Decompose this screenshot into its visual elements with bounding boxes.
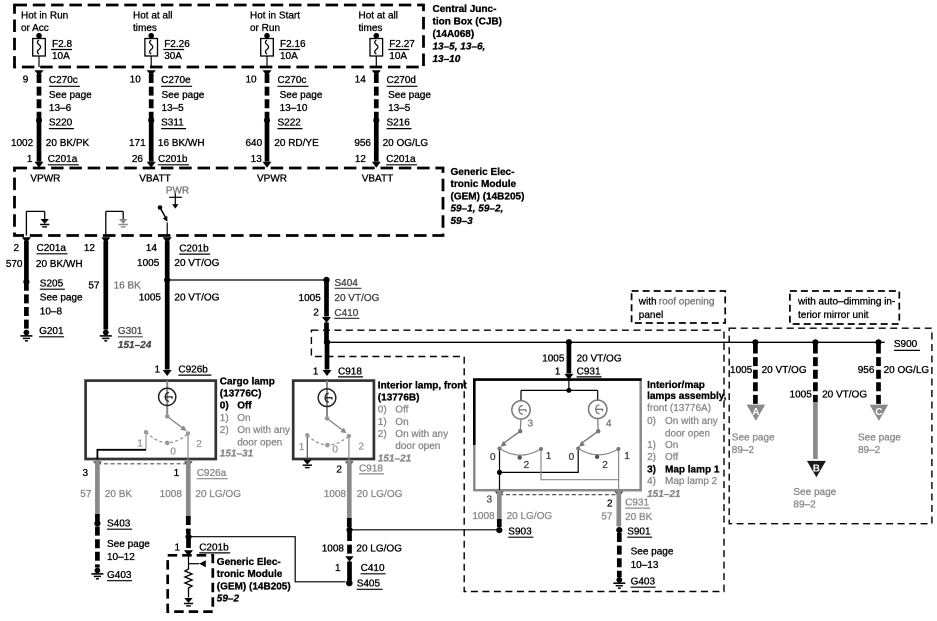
wire 57 16 BK bbox=[103, 241, 108, 330]
cargo pin 1 exit arrow bbox=[184, 461, 193, 467]
svg-text:S405: S405 bbox=[357, 579, 381, 590]
wire col2 CJB to GEM bbox=[149, 74, 154, 120]
GEM2 internal ground bbox=[184, 599, 193, 606]
Central Junction Box (CJB) dashed enclosure bbox=[15, 5, 424, 67]
svg-text:1005: 1005 bbox=[730, 365, 753, 376]
hot feed label col2 bbox=[133, 11, 172, 34]
svg-text:On: On bbox=[237, 413, 250, 424]
with roof opening panel region dashed outline bbox=[311, 330, 724, 591]
wire fuse4 to connector bbox=[375, 56, 377, 67]
svg-text:10A: 10A bbox=[389, 51, 407, 62]
svg-text:S216: S216 bbox=[387, 118, 411, 129]
ground G301 bbox=[100, 326, 152, 351]
svg-text:times: times bbox=[133, 23, 157, 34]
svg-text:640: 640 bbox=[246, 138, 263, 149]
map switch 2 blade bbox=[579, 431, 598, 447]
svg-text:PWR: PWR bbox=[166, 185, 189, 196]
svg-text:(14A068): (14A068) bbox=[433, 29, 475, 40]
svg-text:G201: G201 bbox=[39, 326, 64, 337]
svg-text:2): 2) bbox=[220, 425, 229, 436]
svg-text:16 BK: 16 BK bbox=[114, 281, 142, 292]
svg-text:20 BK: 20 BK bbox=[625, 512, 653, 523]
svg-text:Interior lamp, front: Interior lamp, front bbox=[378, 380, 468, 391]
svg-text:Hot at all: Hot at all bbox=[133, 11, 172, 22]
svg-text:14: 14 bbox=[355, 75, 367, 86]
wire col1 CJB to GEM bbox=[37, 74, 42, 120]
wire fuse2 to connector bbox=[150, 56, 152, 67]
map pin 2 internal wire bbox=[618, 480, 620, 490]
svg-text:13–6: 13–6 bbox=[49, 103, 72, 114]
labels 1005 20 VT/OG A bbox=[730, 365, 807, 376]
svg-text:0: 0 bbox=[332, 444, 338, 455]
wire fuse3 to connector bbox=[266, 56, 268, 67]
svg-text:or Acc: or Acc bbox=[21, 23, 49, 34]
svg-text:G301: G301 bbox=[118, 326, 143, 337]
svg-text:S900: S900 bbox=[894, 339, 918, 350]
svg-text:Map lamp 2: Map lamp 2 bbox=[665, 476, 718, 487]
with auto-dimming label box bbox=[790, 291, 899, 324]
svg-text:VBATT: VBATT bbox=[362, 173, 393, 184]
cargo switch arc bbox=[146, 432, 188, 442]
svg-text:S311: S311 bbox=[161, 118, 184, 129]
GEM output arrow pin 14 bbox=[163, 237, 172, 243]
map pin 3 internal wire bbox=[499, 472, 501, 490]
splice S900 label bbox=[894, 339, 920, 351]
wire to C201b junction black bbox=[186, 516, 191, 534]
labels 1008 20 LG/OG gray interior bbox=[324, 489, 403, 500]
GEM entry arrow col3 bbox=[263, 162, 272, 168]
off-page arrow B bbox=[807, 461, 826, 477]
svg-text:14: 14 bbox=[146, 243, 158, 254]
svg-text:26: 26 bbox=[132, 154, 144, 165]
svg-text:2: 2 bbox=[336, 464, 342, 475]
C see page labels bbox=[858, 432, 901, 456]
svg-text:3: 3 bbox=[528, 419, 534, 430]
labels 1008 20 LG/OG gray map bbox=[472, 511, 552, 522]
svg-text:59–3: 59–3 bbox=[451, 216, 474, 227]
svg-text:(GEM) (14B205): (GEM) (14B205) bbox=[217, 581, 291, 592]
svg-text:0): 0) bbox=[220, 401, 229, 412]
svg-text:1: 1 bbox=[174, 542, 180, 553]
pin 13 labels col3 bbox=[251, 154, 263, 165]
svg-text:1: 1 bbox=[546, 451, 552, 462]
svg-text:C931: C931 bbox=[625, 498, 649, 509]
svg-text:20 OG/LG: 20 OG/LG bbox=[383, 138, 429, 149]
svg-text:On with any: On with any bbox=[395, 429, 448, 440]
svg-text:1: 1 bbox=[555, 366, 561, 377]
map lamps entry wiring bbox=[521, 380, 598, 401]
pin 1 / C918 labels bbox=[313, 366, 363, 377]
with auto-dimming region dashed outline bbox=[729, 328, 932, 524]
svg-text:door open: door open bbox=[237, 437, 282, 448]
junction node C201b lower bbox=[185, 534, 191, 540]
wire 1008 to C410 bbox=[347, 532, 352, 555]
svg-text:4: 4 bbox=[606, 419, 612, 430]
svg-text:F2.8: F2.8 bbox=[52, 39, 72, 50]
connector C926a dashed link line bbox=[97, 463, 188, 465]
labels 57 20 BK bbox=[80, 489, 132, 500]
map switch 1 contacts bbox=[498, 447, 544, 460]
svg-text:1: 1 bbox=[313, 366, 319, 377]
svg-text:Off: Off bbox=[237, 401, 252, 412]
interior switch position labels bbox=[299, 441, 365, 455]
svg-text:See page: See page bbox=[49, 90, 92, 101]
wire S901 to G403 bbox=[617, 533, 622, 577]
wire C410 to junction bbox=[324, 323, 329, 343]
fuse F3 (F2.16 10A) bbox=[261, 33, 306, 62]
svg-text:1: 1 bbox=[624, 451, 630, 462]
splice S901 bbox=[616, 527, 652, 538]
wire to B gray lower bbox=[813, 402, 818, 459]
pin 2 / C201a labels bbox=[6, 243, 83, 270]
svg-text:C201b: C201b bbox=[199, 542, 229, 553]
wire 1005 20 VT/OG to cargo lamp bbox=[165, 282, 170, 370]
pin 1 / C201b labels lower bbox=[174, 542, 230, 553]
svg-text:See page: See page bbox=[388, 90, 431, 101]
GEM internal ground symbol 1 bbox=[40, 220, 49, 227]
interior box ground bbox=[303, 460, 312, 467]
svg-text:C926a: C926a bbox=[197, 468, 227, 479]
svg-text:door open: door open bbox=[395, 441, 440, 452]
cargo feed labels 1005 20 VT/OG bbox=[139, 293, 220, 304]
junction node map 0-contact bbox=[497, 470, 502, 475]
cargo lamp entry wire bbox=[166, 381, 168, 417]
svg-text:1005: 1005 bbox=[137, 258, 160, 269]
svg-text:57: 57 bbox=[601, 512, 613, 523]
svg-text:See page: See page bbox=[162, 90, 205, 101]
svg-text:4): 4) bbox=[647, 476, 656, 487]
svg-text:1: 1 bbox=[154, 365, 160, 376]
svg-text:lamps assembly,: lamps assembly, bbox=[647, 391, 727, 402]
svg-text:C410: C410 bbox=[361, 563, 385, 574]
svg-text:20 BK: 20 BK bbox=[105, 489, 133, 500]
svg-text:2: 2 bbox=[602, 460, 608, 471]
svg-text:Hot in Run: Hot in Run bbox=[21, 11, 68, 22]
svg-text:tronic Module: tronic Module bbox=[217, 569, 283, 580]
svg-text:10–12: 10–12 bbox=[107, 552, 135, 563]
pin 12 labels col4 bbox=[355, 154, 417, 165]
svg-text:F2.27: F2.27 bbox=[389, 39, 415, 50]
svg-text:20 LG/OG: 20 LG/OG bbox=[357, 489, 403, 500]
svg-text:1005: 1005 bbox=[542, 354, 565, 365]
splice S403 bbox=[94, 519, 150, 564]
svg-text:2: 2 bbox=[524, 460, 530, 471]
wire 1008 20 LG/OG gray interior bbox=[347, 460, 352, 520]
S901 see page labels bbox=[631, 546, 674, 571]
wire S903 branch line bbox=[350, 529, 499, 531]
svg-text:89–2: 89–2 bbox=[858, 445, 881, 456]
svg-text:C926b: C926b bbox=[178, 365, 208, 376]
svg-text:1: 1 bbox=[174, 468, 180, 479]
Generic Electronic Module (GEM) lower dashed box bbox=[168, 555, 213, 611]
svg-text:Hot in Start: Hot in Start bbox=[250, 11, 300, 22]
B see page labels bbox=[793, 487, 836, 511]
Cargo lamp (13776C) box bbox=[86, 381, 216, 459]
svg-text:2): 2) bbox=[378, 429, 387, 440]
svg-text:or Run: or Run bbox=[250, 23, 280, 34]
svg-text:13–5, 13–6,: 13–5, 13–6, bbox=[433, 41, 486, 52]
svg-text:20 VT/OG: 20 VT/OG bbox=[762, 365, 807, 376]
svg-text:1: 1 bbox=[335, 563, 341, 574]
svg-text:Interior/map: Interior/map bbox=[647, 380, 705, 391]
svg-text:956: 956 bbox=[858, 365, 875, 376]
wire 1005 20 VT/OG to B upper bbox=[813, 345, 818, 403]
pin 10 / C270e labels col2 bbox=[130, 75, 205, 114]
svg-text:Hot at all: Hot at all bbox=[359, 11, 398, 22]
svg-text:2: 2 bbox=[607, 498, 613, 509]
svg-text:Off: Off bbox=[395, 405, 408, 416]
GEM2 internal resistor bbox=[185, 567, 192, 598]
svg-text:12: 12 bbox=[84, 243, 96, 254]
svg-text:20 LG/OG: 20 LG/OG bbox=[195, 489, 241, 500]
wire col4 CJB to GEM bbox=[374, 74, 379, 120]
svg-text:See page: See page bbox=[40, 293, 83, 304]
svg-text:0: 0 bbox=[170, 446, 176, 457]
svg-text:13: 13 bbox=[251, 154, 263, 165]
labels 1008 20 LG/OG gray bbox=[160, 489, 242, 500]
interior switch pivot dot bbox=[325, 416, 330, 421]
svg-text:S220: S220 bbox=[49, 118, 73, 129]
cargo contact 2 wiring to pin 1 bbox=[187, 435, 189, 460]
svg-text:C201a: C201a bbox=[48, 154, 78, 165]
splice S903 bbox=[496, 527, 533, 538]
splice S222 bbox=[264, 117, 303, 128]
svg-text:G403: G403 bbox=[631, 577, 656, 588]
hot feed label col1 bbox=[21, 11, 68, 34]
off-page arrow C bbox=[870, 405, 889, 421]
map switch 1 blade bbox=[501, 431, 521, 447]
junction node C wire bbox=[875, 339, 881, 345]
svg-text:1005: 1005 bbox=[139, 293, 162, 304]
connector C270e arrow col2 bbox=[147, 70, 156, 76]
hot feed label col4 bbox=[359, 11, 398, 34]
wire junction to C918 bbox=[325, 344, 330, 370]
map lamp bulb 2 bbox=[589, 400, 607, 418]
GEM entry arrow col1 bbox=[35, 162, 44, 168]
wire 1005 20 VT/OG to A bbox=[753, 345, 758, 405]
wire C410 to S405 bbox=[347, 562, 352, 581]
svg-text:roof opening: roof opening bbox=[659, 297, 715, 308]
svg-text:A: A bbox=[752, 407, 759, 418]
pin 1 labels col1 bbox=[27, 154, 79, 165]
interior contact 1 wiring to ground bbox=[306, 437, 308, 460]
connector C931 arrow bbox=[564, 374, 573, 380]
svg-text:C410: C410 bbox=[334, 308, 358, 319]
labels 1008 20 LG/OG black bbox=[322, 544, 402, 555]
svg-text:2: 2 bbox=[313, 308, 319, 319]
svg-text:57: 57 bbox=[88, 281, 100, 292]
svg-text:20 BK/PK: 20 BK/PK bbox=[46, 138, 90, 149]
svg-text:See page: See page bbox=[858, 432, 901, 443]
svg-text:C270d: C270d bbox=[387, 75, 416, 86]
connector C201b arrow lower bbox=[184, 550, 193, 556]
wire 1005 20 VT/OG to C410 bbox=[324, 280, 329, 317]
map switch 1 position labels bbox=[490, 451, 552, 471]
svg-text:1): 1) bbox=[647, 440, 656, 451]
svg-text:1008: 1008 bbox=[160, 489, 183, 500]
svg-text:Map lamp 1: Map lamp 1 bbox=[665, 465, 720, 476]
hot feed label col3 bbox=[250, 11, 300, 34]
svg-text:0: 0 bbox=[569, 452, 575, 463]
GEM internal ground symbol 2 bbox=[119, 220, 128, 227]
GEM2 internal driver line bbox=[189, 555, 206, 567]
svg-text:2): 2) bbox=[647, 452, 656, 463]
svg-text:10A: 10A bbox=[280, 51, 298, 62]
wire col3 CJB to GEM bbox=[265, 74, 270, 120]
svg-text:VPWR: VPWR bbox=[30, 173, 60, 184]
wire 570 20 BK/WH bbox=[24, 241, 29, 282]
splice S205 bbox=[23, 279, 83, 318]
junction node roof panel line at C918 wire bbox=[324, 339, 330, 345]
pin 14 / C270d labels col4 bbox=[355, 75, 432, 114]
svg-text:On: On bbox=[665, 440, 678, 451]
svg-text:C270c: C270c bbox=[49, 75, 78, 86]
with roof opening panel label box bbox=[632, 291, 726, 323]
svg-text:151–24: 151–24 bbox=[118, 340, 152, 351]
svg-text:10: 10 bbox=[245, 75, 257, 86]
pin 14 / C201b labels bbox=[137, 243, 220, 269]
svg-text:1008: 1008 bbox=[322, 544, 345, 555]
svg-text:See page: See page bbox=[631, 546, 674, 557]
GEM internal ground hook 1 bbox=[26, 211, 44, 235]
svg-text:(13776B): (13776B) bbox=[378, 392, 420, 403]
cargo switch blade bbox=[167, 416, 186, 431]
connector C270c arrow col3 bbox=[263, 70, 272, 76]
svg-text:1008: 1008 bbox=[472, 511, 495, 522]
svg-text:See page: See page bbox=[107, 539, 150, 550]
svg-text:151–21: 151–21 bbox=[647, 489, 681, 500]
svg-text:See page: See page bbox=[732, 432, 775, 443]
cargo switch contacts bbox=[144, 430, 190, 445]
svg-text:3: 3 bbox=[82, 468, 88, 479]
svg-text:F2.26: F2.26 bbox=[164, 39, 190, 50]
cargo switch position labels bbox=[137, 439, 202, 458]
svg-text:0: 0 bbox=[490, 452, 496, 463]
svg-text:C270e: C270e bbox=[161, 75, 191, 86]
svg-text:See page: See page bbox=[280, 90, 323, 101]
cargo pin 3 exit arrow bbox=[93, 461, 102, 467]
svg-text:F2.16: F2.16 bbox=[280, 39, 306, 50]
pin 2 / C918 labels lower bbox=[336, 463, 384, 475]
pin 26 labels col2 bbox=[132, 154, 189, 165]
ground G403 right bbox=[613, 577, 655, 589]
svg-text:front (13776A): front (13776A) bbox=[647, 403, 711, 414]
ground G201 bbox=[20, 326, 64, 341]
svg-text:door open: door open bbox=[665, 429, 710, 440]
map pin 2 exit arrow bbox=[615, 492, 624, 498]
interior contact 2 wiring to pin 2 bbox=[348, 438, 350, 460]
svg-text:See page: See page bbox=[793, 487, 836, 498]
svg-text:S205: S205 bbox=[40, 279, 64, 290]
wire 57 20 BK gray bbox=[95, 460, 100, 516]
svg-text:10A: 10A bbox=[52, 51, 70, 62]
svg-text:Generic Elec-: Generic Elec- bbox=[217, 557, 281, 568]
svg-text:Central Junc-: Central Junc- bbox=[433, 4, 497, 15]
svg-text:On with any: On with any bbox=[665, 416, 718, 427]
svg-text:1002: 1002 bbox=[11, 138, 34, 149]
map switch 1 arc bbox=[500, 449, 542, 456]
svg-text:16 BK/WH: 16 BK/WH bbox=[158, 138, 205, 149]
interior lamp bulb bbox=[318, 389, 336, 407]
wire 57 20 BK gray map bbox=[616, 490, 621, 527]
splice S311 bbox=[148, 117, 186, 128]
wire junction to GEM2 bbox=[186, 539, 191, 550]
junction node A wire bbox=[752, 339, 758, 345]
interior switch arc bbox=[307, 435, 349, 445]
interior switch contacts bbox=[305, 433, 351, 447]
connector C926b arrow bbox=[163, 370, 172, 376]
svg-text:tronic Module: tronic Module bbox=[451, 179, 517, 190]
connector C270c arrow col1 bbox=[35, 70, 44, 76]
svg-text:terior mirror unit: terior mirror unit bbox=[798, 310, 869, 321]
svg-text:Off: Off bbox=[665, 452, 678, 463]
wire fuse1 to connector bbox=[38, 56, 40, 67]
svg-text:13–10: 13–10 bbox=[433, 54, 461, 65]
wire 1008 20 LG/OG gray map bbox=[497, 490, 502, 521]
interior text block bbox=[378, 380, 468, 464]
GEM entry arrow col2 bbox=[147, 162, 156, 168]
svg-text:0): 0) bbox=[647, 416, 656, 427]
svg-text:C931: C931 bbox=[577, 366, 601, 377]
pin 1 / C931 labels bbox=[555, 366, 602, 377]
labels 1005 20 VT/OG C931 bbox=[542, 354, 622, 365]
svg-text:13–5: 13–5 bbox=[388, 103, 411, 114]
GEM entry arrow col4 bbox=[372, 162, 381, 168]
ground G403 left bbox=[91, 568, 132, 581]
svg-text:1005: 1005 bbox=[299, 293, 322, 304]
svg-text:(GEM) (14B205): (GEM) (14B205) bbox=[451, 191, 525, 202]
svg-text:12: 12 bbox=[355, 154, 367, 165]
svg-text:10–13: 10–13 bbox=[631, 560, 659, 571]
map lamp 2 pivot bbox=[596, 419, 600, 434]
circuit 171 16 BK/WH labels col2 bbox=[129, 138, 205, 149]
svg-text:C201a: C201a bbox=[386, 154, 416, 165]
connector C270d arrow col4 bbox=[372, 70, 381, 76]
svg-text:9: 9 bbox=[23, 75, 29, 86]
wire S405 interconnect bbox=[189, 537, 346, 582]
labels 1005 20 VT/OG B bbox=[790, 390, 868, 401]
splice S220 bbox=[36, 117, 74, 128]
splice S216 bbox=[373, 117, 411, 128]
svg-text:VBATT: VBATT bbox=[139, 173, 170, 184]
connector C931 dashed link line bbox=[499, 494, 619, 496]
wire 1005 20 VT/OG upper bbox=[165, 241, 170, 278]
svg-text:with auto–dimming in-: with auto–dimming in- bbox=[797, 297, 895, 308]
with roof opening panel label text bbox=[638, 297, 715, 322]
svg-text:20 VT/OG: 20 VT/OG bbox=[822, 390, 867, 401]
interior pin 2 exit arrow bbox=[345, 461, 354, 467]
svg-text:C918: C918 bbox=[359, 463, 383, 474]
svg-text:C270c: C270c bbox=[278, 75, 307, 86]
svg-text:20 LG/OG: 20 LG/OG bbox=[507, 511, 553, 522]
svg-text:C201b: C201b bbox=[158, 154, 188, 165]
splice S405 bbox=[346, 579, 383, 590]
wire 1008 20 LG/OG gray bbox=[186, 460, 191, 518]
svg-text:1008: 1008 bbox=[324, 489, 347, 500]
svg-text:C918: C918 bbox=[338, 366, 362, 377]
svg-text:20 VT/OG: 20 VT/OG bbox=[334, 293, 379, 304]
svg-text:89–2: 89–2 bbox=[793, 499, 816, 510]
svg-text:1: 1 bbox=[299, 442, 305, 453]
svg-text:1): 1) bbox=[220, 413, 229, 424]
interior switch blade bbox=[327, 418, 347, 433]
GEM output arrow pin 2 bbox=[22, 237, 31, 243]
GEM output arrow pin 12 bbox=[101, 237, 110, 243]
svg-text:G403: G403 bbox=[107, 570, 132, 581]
svg-text:tion Box (CJB): tion Box (CJB) bbox=[433, 16, 502, 27]
svg-text:2: 2 bbox=[359, 441, 365, 452]
svg-text:0): 0) bbox=[378, 405, 387, 416]
